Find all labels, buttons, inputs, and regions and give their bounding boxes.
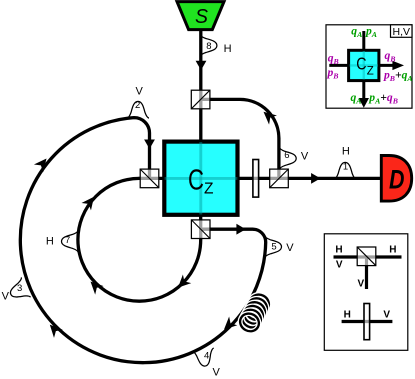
svg-text:V: V <box>357 279 364 290</box>
legend waveplate wire <box>342 320 393 323</box>
svg-text:H: H <box>224 43 232 55</box>
arrow outer loop below coil <box>220 317 237 334</box>
svg-text:V: V <box>301 150 309 162</box>
svg-text:V: V <box>286 242 294 254</box>
svg-text:2: 2 <box>135 100 140 111</box>
svg-text:8: 8 <box>206 41 211 52</box>
pulse 3 V label <box>2 277 31 304</box>
arrow on curve BS4 to BS1 <box>260 107 277 124</box>
wire main horizontal through BS2 CZ waveplate BS4 to D <box>139 177 382 180</box>
arrow inner loop upper left <box>82 193 99 210</box>
beam splitter BS1 below source <box>191 90 210 109</box>
svg-text:S: S <box>195 5 208 28</box>
svg-text:V: V <box>136 86 144 98</box>
wire CZ bottom to BS3 <box>199 215 202 240</box>
wire outer delay loop BS3 right corner 5 big sweep corner 2 into BS2 <box>20 118 265 363</box>
svg-text:H,V: H,V <box>393 26 411 38</box>
arrow outer loop left upper <box>34 155 51 172</box>
pulse 4 V label <box>192 348 221 379</box>
svg-text:V: V <box>2 290 10 302</box>
svg-text:3: 3 <box>17 283 22 294</box>
legend vertical wire with arrow <box>362 31 365 99</box>
svg-text:Z: Z <box>367 66 374 78</box>
svg-text:D: D <box>389 165 405 195</box>
legend mini CZ box <box>349 50 379 80</box>
svg-text:V: V <box>336 259 343 270</box>
wire source S to BS1 to CZ <box>199 30 202 141</box>
legend bottom right: PBS and waveplate rules <box>324 234 408 350</box>
beam splitter BS3 below CZ <box>191 220 210 239</box>
pulse 6 V label <box>280 147 309 169</box>
svg-text:V: V <box>383 309 390 320</box>
wire BS1 to corner to BS4 (loop 6) <box>201 99 279 178</box>
CZ gate box <box>164 142 237 215</box>
legend horizontal wire with arrow <box>329 64 393 67</box>
svg-text:V: V <box>213 367 221 379</box>
arrow BS3 to right (pulse 5) <box>236 224 245 235</box>
arrow BS4 to D <box>311 173 320 184</box>
legend PBS square <box>357 247 376 266</box>
wire inner delay loop BS3 to BS2 <box>78 178 201 301</box>
source S <box>177 2 224 30</box>
pulse 2 V label <box>127 86 149 118</box>
arrow outer loop bottom left <box>45 321 62 338</box>
waveplate right of CZ <box>253 160 259 198</box>
arrow inner loop lower left <box>86 277 103 294</box>
fiber coil delay <box>237 291 272 334</box>
arrow inner loop lower right <box>174 275 191 292</box>
svg-text:H: H <box>335 245 342 256</box>
svg-text:H: H <box>46 236 54 248</box>
svg-text:1: 1 <box>343 161 348 172</box>
pulse 7 H label <box>46 230 78 252</box>
beam splitter BS2 left of CZ <box>140 169 159 188</box>
detector D <box>381 156 411 202</box>
svg-text:7: 7 <box>65 235 70 246</box>
legend waveplate <box>364 304 370 340</box>
svg-text:H: H <box>342 145 350 157</box>
svg-text:C: C <box>188 165 204 197</box>
svg-text:4: 4 <box>204 351 209 362</box>
arrow on S wire <box>196 61 207 70</box>
svg-text:6: 6 <box>284 150 289 161</box>
svg-text:C: C <box>356 54 366 74</box>
svg-text:H: H <box>344 309 351 320</box>
pulse 5 V label <box>265 236 294 258</box>
svg-text:Z: Z <box>204 180 213 197</box>
svg-text:5: 5 <box>271 242 276 253</box>
legend top right: CZ transform rules <box>326 25 413 109</box>
beam splitter BS4 right of CZ <box>270 169 289 188</box>
legend PBS wires <box>334 255 402 258</box>
pulse 1 H label <box>334 145 356 179</box>
pulse 8 H label <box>200 35 231 57</box>
svg-text:H: H <box>389 245 396 256</box>
arrow into BS2 top (pulse 2) <box>144 140 155 149</box>
